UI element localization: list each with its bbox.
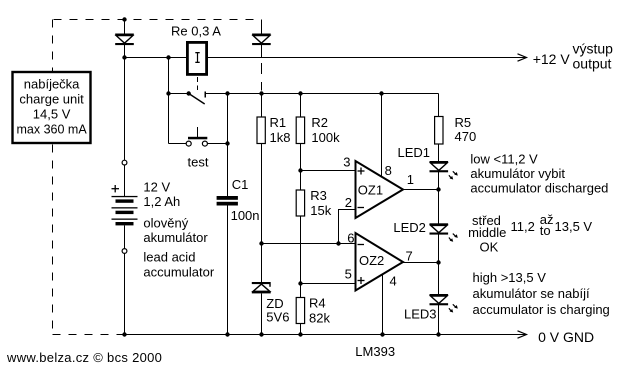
svg-text:OK: OK bbox=[480, 239, 499, 254]
svg-text:11,2: 11,2 bbox=[511, 219, 535, 234]
svg-text:LED1: LED1 bbox=[398, 145, 431, 160]
svg-text:OZ1: OZ1 bbox=[358, 183, 383, 198]
svg-text:82k: 82k bbox=[309, 311, 330, 326]
svg-text:low <11,2 V: low <11,2 V bbox=[470, 151, 538, 166]
svg-text:1k8: 1k8 bbox=[270, 130, 291, 145]
svg-text:www.belza.cz © bcs 2000: www.belza.cz © bcs 2000 bbox=[6, 350, 162, 365]
svg-text:R3: R3 bbox=[310, 188, 327, 203]
svg-text:akumulátor vybit: akumulátor vybit bbox=[470, 166, 565, 181]
svg-text:accumulator is charging: accumulator is charging bbox=[473, 302, 610, 317]
svg-text:100n: 100n bbox=[231, 208, 260, 223]
svg-text:lead acid: lead acid bbox=[143, 250, 195, 265]
svg-text:accumulator discharged: accumulator discharged bbox=[470, 181, 608, 196]
svg-text:470: 470 bbox=[455, 129, 477, 144]
svg-text:C1: C1 bbox=[232, 177, 249, 192]
svg-text:R1: R1 bbox=[270, 115, 287, 130]
svg-text:R5: R5 bbox=[455, 115, 472, 130]
svg-text:4: 4 bbox=[390, 274, 397, 289]
svg-text:R2: R2 bbox=[311, 115, 328, 130]
svg-text:14,5 V: 14,5 V bbox=[33, 107, 71, 122]
svg-text:charge unit: charge unit bbox=[19, 92, 84, 107]
svg-text:6: 6 bbox=[347, 231, 354, 246]
svg-text:LED3: LED3 bbox=[404, 307, 437, 322]
svg-text:100k: 100k bbox=[311, 130, 340, 145]
svg-text:5: 5 bbox=[345, 267, 352, 282]
svg-text:output: output bbox=[573, 56, 612, 72]
svg-text:max 360 mA: max 360 mA bbox=[17, 123, 88, 137]
svg-text:12 V: 12 V bbox=[143, 180, 170, 195]
svg-text:to: to bbox=[540, 223, 551, 238]
svg-text:LED2: LED2 bbox=[393, 220, 426, 235]
svg-text:accumulator: accumulator bbox=[143, 265, 214, 280]
svg-text:3: 3 bbox=[343, 155, 350, 170]
svg-text:OZ2: OZ2 bbox=[359, 253, 384, 268]
svg-text:akumulátor se nabíjí: akumulátor se nabíjí bbox=[473, 286, 590, 301]
svg-text:akumulátor: akumulátor bbox=[143, 230, 208, 245]
svg-text:+12 V: +12 V bbox=[533, 51, 571, 67]
svg-text:15k: 15k bbox=[310, 203, 331, 218]
svg-text:1: 1 bbox=[407, 172, 414, 187]
svg-text:7: 7 bbox=[406, 249, 413, 264]
svg-text:13,5 V: 13,5 V bbox=[555, 219, 593, 234]
svg-text:test: test bbox=[188, 155, 209, 170]
svg-text:výstup: výstup bbox=[573, 41, 614, 57]
svg-text:8: 8 bbox=[385, 163, 392, 178]
svg-text:5V6: 5V6 bbox=[266, 310, 289, 325]
svg-text:2: 2 bbox=[345, 195, 352, 210]
svg-text:Re 0,3 A: Re 0,3 A bbox=[171, 24, 221, 39]
svg-text:nabíječka: nabíječka bbox=[24, 77, 80, 92]
svg-text:1,2 Ah: 1,2 Ah bbox=[143, 194, 180, 209]
svg-text:R4: R4 bbox=[309, 296, 326, 311]
svg-text:olověný: olověný bbox=[143, 216, 188, 231]
svg-text:LM393: LM393 bbox=[355, 344, 395, 359]
svg-text:0 V GND: 0 V GND bbox=[538, 329, 594, 345]
svg-text:high >13,5 V: high >13,5 V bbox=[473, 270, 547, 285]
svg-text:middle: middle bbox=[468, 225, 506, 240]
